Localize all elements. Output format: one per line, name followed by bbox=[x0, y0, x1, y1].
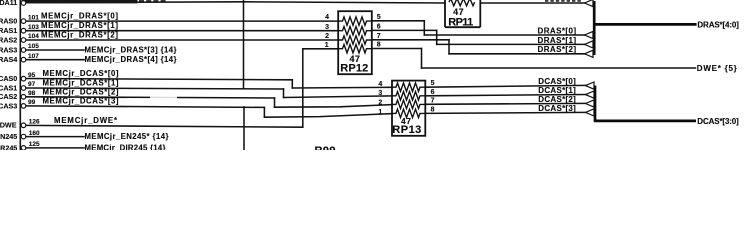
svg-text:MEMCjr_DCAS*[3]: MEMCjr_DCAS*[3] bbox=[43, 96, 119, 105]
svg-text:MEMCjr_DRAS*[2]: MEMCjr_DRAS*[2] bbox=[41, 31, 118, 40]
svg-text:RP12: RP12 bbox=[340, 63, 368, 75]
svg-text:DCAS*[0]: DCAS*[0] bbox=[538, 77, 576, 86]
svg-text:6: 6 bbox=[377, 24, 381, 31]
svg-text:6: 6 bbox=[431, 89, 435, 96]
svg-text:4: 4 bbox=[378, 81, 382, 88]
svg-text:DRAS0: DRAS0 bbox=[0, 17, 17, 26]
svg-text:8: 8 bbox=[377, 42, 381, 49]
svg-text:EN245: EN245 bbox=[0, 132, 17, 141]
svg-text:RP13: RP13 bbox=[392, 124, 421, 136]
svg-text:5: 5 bbox=[377, 14, 381, 21]
svg-text:DCAS*[3]: DCAS*[3] bbox=[538, 104, 576, 113]
svg-text:DCAS*[2]: DCAS*[2] bbox=[538, 95, 576, 104]
svg-text:98: 98 bbox=[28, 90, 36, 97]
svg-text:DRAS2: DRAS2 bbox=[0, 35, 17, 44]
svg-text:DCAS1: DCAS1 bbox=[0, 83, 17, 92]
svg-text:3: 3 bbox=[325, 24, 329, 31]
svg-text:4: 4 bbox=[325, 14, 329, 21]
svg-text:MEMCjr_DRAS*[3] {14}: MEMCjr_DRAS*[3] {14} bbox=[85, 46, 177, 55]
svg-text:97: 97 bbox=[28, 81, 36, 88]
svg-text:103: 103 bbox=[28, 24, 39, 31]
svg-text:MEMCjr_EN245* {14}: MEMCjr_EN245* {14} bbox=[85, 132, 169, 141]
svg-text:DRAS*[4:0]: DRAS*[4:0] bbox=[697, 20, 739, 29]
svg-text:RP11: RP11 bbox=[448, 16, 473, 28]
svg-text:DRAS3: DRAS3 bbox=[0, 45, 17, 54]
svg-text:7: 7 bbox=[431, 97, 435, 104]
svg-text:99: 99 bbox=[28, 99, 36, 106]
svg-text:DIR245: DIR245 bbox=[0, 143, 17, 150]
svg-text:MEMCjr_DCAS*[0]: MEMCjr_DCAS*[0] bbox=[43, 69, 119, 78]
svg-text:107: 107 bbox=[28, 53, 39, 60]
svg-text:104: 104 bbox=[28, 33, 39, 40]
svg-text:8: 8 bbox=[431, 106, 435, 113]
svg-text:DWE* {5}: DWE* {5} bbox=[697, 64, 737, 73]
svg-text:DWE: DWE bbox=[0, 121, 17, 130]
svg-text:DCAS*[1]: DCAS*[1] bbox=[538, 86, 576, 95]
svg-text:DCAS*[3:0]: DCAS*[3:0] bbox=[697, 117, 739, 126]
svg-text:MEMCjr_DRAS*[1]: MEMCjr_DRAS*[1] bbox=[41, 21, 118, 30]
svg-text:MEMCjr_DRAS*[4] {14}: MEMCjr_DRAS*[4] {14} bbox=[85, 55, 177, 64]
svg-text:5: 5 bbox=[431, 80, 435, 87]
svg-text:126: 126 bbox=[29, 119, 40, 126]
svg-text:1: 1 bbox=[325, 42, 329, 49]
svg-text:DRAS1: DRAS1 bbox=[0, 26, 17, 35]
svg-text:R99: R99 bbox=[315, 145, 336, 150]
svg-text:DCAS0: DCAS0 bbox=[0, 74, 17, 83]
svg-text:DRAS*[2]: DRAS*[2] bbox=[538, 45, 577, 54]
svg-text:MEMCjr_DRAS*[0]: MEMCjr_DRAS*[0] bbox=[41, 12, 118, 21]
svg-text:1: 1 bbox=[378, 109, 382, 116]
svg-text:MEMCjr_DCAS*[2]: MEMCjr_DCAS*[2] bbox=[43, 87, 119, 96]
svg-text:MEMCjr_DIR245 {14}: MEMCjr_DIR245 {14} bbox=[85, 143, 166, 150]
svg-text:DRAS4: DRAS4 bbox=[0, 55, 17, 64]
svg-text:105: 105 bbox=[28, 43, 39, 50]
svg-text:7: 7 bbox=[377, 33, 381, 40]
svg-text:MEMCjr_DCAS*[1]: MEMCjr_DCAS*[1] bbox=[43, 79, 119, 88]
svg-text:2: 2 bbox=[325, 33, 329, 40]
svg-text:DRAS*[1]: DRAS*[1] bbox=[538, 36, 577, 45]
svg-text:125: 125 bbox=[29, 141, 40, 148]
svg-text:95: 95 bbox=[28, 72, 36, 79]
svg-text:2: 2 bbox=[378, 100, 382, 107]
svg-text:MEMCjr_DWE*: MEMCjr_DWE* bbox=[54, 116, 118, 125]
svg-text:DRAS*[0]: DRAS*[0] bbox=[538, 26, 577, 35]
svg-text:3: 3 bbox=[378, 90, 382, 97]
svg-text:DCAS3: DCAS3 bbox=[0, 101, 17, 110]
svg-text:101: 101 bbox=[28, 14, 39, 21]
svg-text:DCAS2: DCAS2 bbox=[0, 92, 17, 101]
svg-text:MDA11: MDA11 bbox=[0, 0, 17, 7]
svg-text:160: 160 bbox=[29, 130, 40, 137]
